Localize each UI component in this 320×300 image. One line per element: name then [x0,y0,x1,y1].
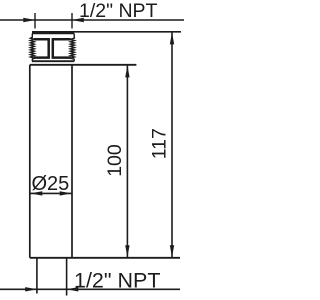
wire body right edge [71,65,73,258]
node 117 top arrow [170,32,174,44]
node top-right arrow [72,18,84,22]
node 100 bottom arrow [125,245,129,257]
node dia right arrow [60,191,72,195]
wire fitting top thick edge [32,32,74,34]
node top-left arrow [23,18,35,22]
node dia left arrow [30,191,42,195]
svg-text:1/2" NPT: 1/2" NPT [74,268,161,292]
wire fitting inner right block [53,39,71,57]
wire bottom dimension line 1/2 NPT [0,288,180,290]
node bottom-right arrow [66,287,78,291]
wire top extension line right [71,13,73,29]
wire 100 dimension line [126,65,128,257]
wire body top edge with extension to 100 dim [30,64,137,66]
wire diameter dimension line [30,192,72,194]
wire bottom stem left edge [36,258,38,294]
wire top extension line left [34,13,36,29]
wire bottom stem right edge [66,258,68,296]
svg-text:117: 117 [149,128,171,159]
svg-text:100: 100 [104,144,126,177]
wire fitting inner left block [34,39,49,57]
wire fitting bottom edge [32,60,74,62]
wire body bottom edge with extension to 117 dim [30,257,180,259]
node bottom-left arrow [25,287,37,291]
wire fitting top extension to 117 dim [32,31,181,33]
svg-text:1/2" NPT: 1/2" NPT [79,0,158,22]
wire body left edge [29,65,31,258]
node 100 top arrow [125,65,129,77]
wire fitting left threaded edge [30,34,34,62]
wire fitting right threaded edge [70,34,74,62]
svg-text:Ø25: Ø25 [32,173,70,195]
wire 117 dimension line [171,32,173,257]
wire top dimension line 1/2 NPT [0,19,184,21]
node 117 bottom arrow [170,245,174,257]
